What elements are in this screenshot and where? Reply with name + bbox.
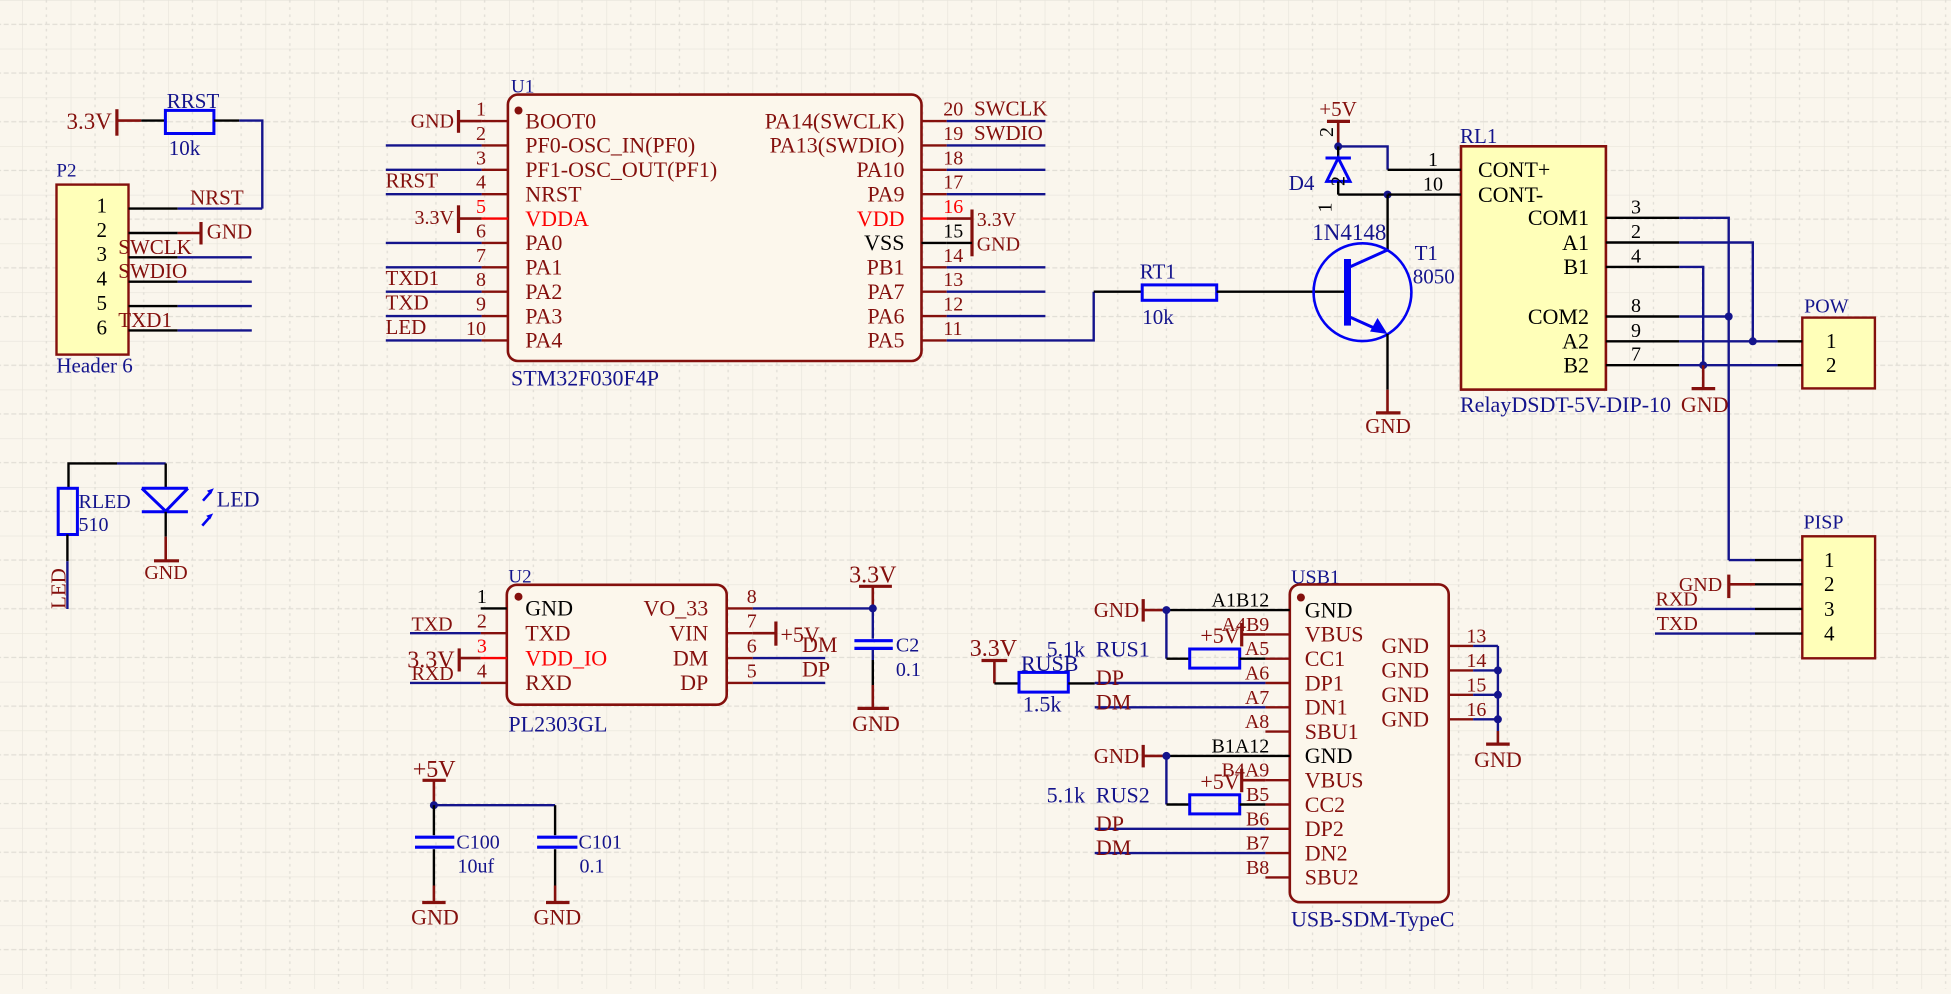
svg-text:5: 5 [476,196,486,218]
svg-text:16: 16 [943,196,963,218]
svg-text:1: 1 [1315,203,1337,213]
wire P2 pin4 SWDIO [178,281,252,283]
wire DP block 1 [1095,682,1266,684]
P2 pin 3 [129,256,178,258]
wire DP at U2 pin5 [753,682,825,684]
USB1 pin A7 DN1 [1265,706,1289,708]
svg-text:A8: A8 [1245,711,1269,733]
U2 pin 8 VO_33 [727,607,753,609]
POW pin 1 [1778,340,1803,342]
U2 pin 4 RXD [481,682,507,684]
diode D4 1N4148 [1337,146,1339,158]
wire RUS1 to CC pin [1240,658,1266,660]
U1 pin 11 [922,339,947,341]
PISP pin 3 [1755,608,1802,610]
wire U1 pin11 PA5 to RT1 [947,292,1094,341]
PISP pin 4 [1755,632,1802,634]
svg-text:USB-SDM-TypeC: USB-SDM-TypeC [1291,907,1454,932]
wire at U1 pin 12 [947,315,1046,317]
svg-text:DN1: DN1 [1305,695,1348,720]
U1 pin 5 [482,217,508,219]
wire at U1 pin 6 [386,242,482,244]
USB1 pin B8 SBU2 [1265,876,1289,878]
wire RXD to U2 pin4 [410,682,481,684]
LED arrow 2 [202,517,210,526]
U1 pin 8 [482,290,508,292]
U1 pin 20 [922,120,947,122]
svg-text:GND: GND [411,111,454,133]
svg-text:GND: GND [411,905,459,930]
USB1 pin 16 GND [1449,718,1473,720]
svg-text:VDDA: VDDA [525,206,589,231]
wire RLED top network [69,463,118,488]
svg-text:CONT-: CONT- [1478,182,1543,207]
PISP pin 1 [1755,559,1802,561]
power port GND below C2 [871,685,874,708]
svg-text:GND: GND [1681,392,1729,417]
svg-text:1: 1 [97,194,108,218]
junction dot GND bus [1494,691,1502,699]
svg-text:2: 2 [1824,572,1835,596]
RL1 pin 2 A1 [1606,241,1679,243]
svg-text:COM1: COM1 [1528,205,1589,230]
svg-text:TXD: TXD [525,620,570,645]
wire A2 to POW pin1 [1679,340,1777,342]
svg-text:PA0: PA0 [525,230,562,255]
svg-text:3: 3 [476,147,486,169]
svg-text:T1: T1 [1415,241,1438,265]
svg-text:RUSB: RUSB [1021,651,1078,676]
U2 pin 6 DM [727,657,753,659]
wire at U1 pin 19 [947,144,1046,146]
svg-text:8: 8 [476,269,486,291]
P2 pin 4 [129,281,178,283]
svg-text:1: 1 [1428,149,1438,171]
svg-text:7: 7 [476,245,486,267]
svg-text:DP: DP [680,670,708,695]
svg-text:GND: GND [1094,598,1140,622]
wire at U1 pin 18 [947,169,1046,171]
svg-text:VDD: VDD [857,206,905,231]
svg-text:16: 16 [1466,699,1486,721]
svg-text:DP: DP [1096,665,1124,690]
wire at U1 pin 8 [386,290,482,292]
junction dot 3.3V C2 node [869,604,877,612]
wire at U1 pin 3 [386,169,482,171]
wire TXD to PISP pin4 [1655,632,1755,634]
svg-text:10: 10 [1423,174,1443,196]
wire at U1 pin 9 [386,315,482,317]
svg-text:2: 2 [476,123,486,145]
svg-text:17: 17 [943,172,963,194]
svg-text:RUS2: RUS2 [1096,783,1150,808]
svg-text:VDD_IO: VDD_IO [525,645,607,670]
svg-text:3.3V: 3.3V [849,562,897,588]
svg-text:CC1: CC1 [1305,646,1345,671]
svg-text:GND: GND [1381,707,1429,732]
wire 3.3V node to C2 [872,608,874,638]
U1 pin 4 [482,193,508,195]
resistor RUSB [1019,672,1068,692]
svg-text:RXD: RXD [412,663,454,685]
svg-text:TXD: TXD [386,291,429,315]
U1 pin 3 [482,169,508,171]
svg-text:3: 3 [477,636,487,658]
junction dot A2 node [1749,337,1757,345]
svg-text:PA14(SWCLK): PA14(SWCLK) [765,108,905,133]
svg-text:B6: B6 [1246,808,1269,830]
transistor T1 8050 [1314,243,1412,341]
svg-text:3: 3 [1631,196,1641,218]
svg-text:SBU1: SBU1 [1305,719,1359,744]
power port GND below T1 [1386,390,1389,413]
svg-text:2: 2 [1316,127,1338,137]
junction dot +5V caps node [430,801,438,809]
svg-text:NRST: NRST [525,181,582,206]
wire C100 to GND [433,849,435,885]
wire USB right GND bus vertical [1497,646,1499,731]
svg-text:DP: DP [1096,811,1124,836]
U2 pin 5 DP [727,682,753,684]
svg-text:SWCLK: SWCLK [118,235,192,259]
junction dot COM2 node [1725,313,1733,321]
USB1 pin A4B9 VBUS [1265,633,1289,635]
svg-text:2: 2 [1328,176,1350,186]
U2 pin 3 VDD_IO [481,657,507,659]
LED arrow 1 [203,492,211,501]
svg-text:A2: A2 [1562,329,1589,354]
RL1 pin 8 COM2 [1606,315,1679,317]
svg-text:4: 4 [97,267,108,291]
wire +5V node to C101 [434,804,555,806]
svg-text:10k: 10k [169,136,201,160]
USB1 pin B5 CC2 [1265,803,1289,805]
svg-text:PA7: PA7 [867,279,904,304]
wire DP block 2 [1095,828,1266,830]
wire B1 down to B2 node [1679,267,1703,365]
svg-text:2: 2 [1631,221,1641,243]
svg-text:STM32F030F4P: STM32F030F4P [511,366,659,391]
svg-text:SWDIO: SWDIO [118,259,187,283]
svg-text:10uf: 10uf [458,856,495,878]
svg-text:DP2: DP2 [1305,816,1344,841]
wire at U1 pin 17 [947,193,1046,195]
svg-text:A5: A5 [1245,638,1269,660]
svg-text:POW: POW [1804,295,1849,317]
svg-text:PF1-OSC_OUT(PF1): PF1-OSC_OUT(PF1) [525,157,717,182]
svg-text:15: 15 [1466,674,1486,696]
svg-text:1.5k: 1.5k [1023,692,1062,717]
svg-text:8: 8 [747,586,757,608]
POW pin 2 [1778,364,1803,366]
svg-text:1: 1 [476,99,486,121]
wire TXD to U2 pin2 [410,632,481,634]
svg-text:LED: LED [386,315,427,339]
wire at U1 pin 7 [386,266,482,268]
svg-text:B8: B8 [1246,857,1269,879]
wire RLED bottom [66,535,68,562]
wire at U1 pin 2 [386,144,482,146]
wire C2 to GND [872,650,874,660]
svg-text:PF0-OSC_IN(PF0): PF0-OSC_IN(PF0) [525,133,695,158]
svg-text:510: 510 [79,514,109,536]
svg-text:RLED: RLED [79,491,131,513]
USB1 pin A8 SBU1 [1265,730,1289,732]
U1 pin 12 [922,315,947,317]
resistor RT1 [1142,285,1217,300]
wire 3.3V to RUSB [994,682,1019,684]
PISP pin 2 [1755,583,1802,585]
P2 pin 1 [129,207,178,209]
svg-text:PA10: PA10 [856,157,904,182]
svg-text:3.3V: 3.3V [977,209,1017,231]
svg-text:19: 19 [943,123,963,145]
RL1 pin 9 A2 [1606,340,1679,342]
wire P2 pin5 [178,305,252,307]
svg-text:GND: GND [1381,633,1429,658]
svg-text:Header 6: Header 6 [56,353,132,377]
USB1 pin A5 CC1 [1265,658,1289,660]
svg-text:PA9: PA9 [867,181,904,206]
svg-text:CONT+: CONT+ [1478,157,1550,182]
svg-text:DM: DM [1096,689,1131,714]
wire GND to USB1 block 1 [1166,609,1289,611]
P2 pin 5 [129,305,178,307]
svg-text:6: 6 [476,220,486,242]
wire GND down to RUS1 [1165,610,1167,659]
wire P2 pin3 SWCLK [178,256,252,258]
wire P2 pin1 to NRST net [178,207,263,209]
svg-text:14: 14 [943,245,963,267]
svg-text:11: 11 [943,318,962,340]
svg-text:VO_33: VO_33 [644,596,709,621]
svg-text:RXD: RXD [1656,588,1698,610]
svg-text:LED: LED [47,568,71,609]
wire RT1 to T1 base [1217,291,1347,293]
svg-text:GND: GND [1381,682,1429,707]
RL1 pin 4 B1 [1606,266,1679,268]
svg-text:SWCLK: SWCLK [974,97,1048,121]
node NRST vertical wire to RRST [261,121,263,209]
wire 3.3V to RRST [141,119,165,121]
wire GND at U1 pin15 [947,242,972,244]
svg-text:GND: GND [1094,744,1140,768]
svg-text:DP1: DP1 [1305,670,1344,695]
svg-text:PA2: PA2 [525,279,562,304]
svg-text:PL2303GL: PL2303GL [508,711,607,736]
svg-text:LED: LED [217,487,260,512]
svg-text:3: 3 [1824,597,1835,621]
svg-text:TXD: TXD [1657,613,1698,635]
svg-text:PA4: PA4 [525,328,562,353]
svg-text:13: 13 [1466,625,1486,647]
svg-text:TXD1: TXD1 [118,308,172,332]
svg-text:A1: A1 [1562,230,1589,255]
wire RXD to PISP pin3 [1655,608,1755,610]
RL1 pin 3 COM1 [1606,217,1679,219]
svg-text:COM2: COM2 [1528,304,1589,329]
junction dot GND block 1 [1162,606,1170,614]
svg-text:8: 8 [1631,295,1641,317]
svg-text:1: 1 [1826,329,1837,353]
svg-text:RRST: RRST [386,169,439,193]
U1 pin 17 [922,193,947,195]
svg-text:A1B12: A1B12 [1212,590,1270,612]
svg-text:C2: C2 [896,635,919,657]
svg-text:15: 15 [943,220,963,242]
U1 pin 6 [482,242,508,244]
svg-text:DM: DM [802,632,837,657]
RL1 pin 7 B2 [1606,364,1679,366]
wire USB1 pin 16 [1473,718,1498,720]
svg-text:A6: A6 [1245,663,1269,685]
P2 pin 6 [129,329,178,331]
svg-text:+5V: +5V [1200,623,1239,648]
svg-text:D4: D4 [1289,171,1315,195]
wire U2 pin8 to 3.3V node [753,607,873,609]
wire DM block 2 [1095,852,1266,854]
wire B2 to POW pin2 [1679,364,1777,366]
svg-text:GND: GND [977,234,1020,256]
usb connector USB1 body [1290,584,1449,902]
ic U2 body [507,585,727,705]
svg-text:GND: GND [1381,658,1429,683]
svg-text:DP: DP [802,657,830,682]
U2 pin 7 VIN [727,632,753,634]
svg-text:2: 2 [97,218,108,242]
wire USB1 pin 15 [1473,694,1498,696]
power port GND below C101 [554,886,557,903]
wire RRST to NRST corner [214,119,239,121]
svg-text:4: 4 [476,172,486,194]
wire COM vertical to PISP pin1 [1729,559,1755,561]
wire COM1 to PISP vertical [1679,218,1728,560]
wire COM2 to vertical [1679,315,1728,317]
svg-text:DN2: DN2 [1305,840,1348,865]
RL1 pin 1 CONT+ [1388,169,1461,171]
power port GND below USB right bus [1497,731,1500,744]
wire at U1 pin 20 [947,120,1046,122]
svg-text:RL1: RL1 [1460,124,1497,148]
wire at U1 pin 4 [386,193,482,195]
wire at U1 pin 13 [947,290,1046,292]
svg-text:12: 12 [943,294,963,316]
svg-text:7: 7 [747,611,757,633]
U1 pin 9 [482,315,508,317]
svg-text:GND: GND [1365,414,1411,438]
wire GND to USB1 block 2 [1166,755,1289,757]
USB1 pin B6 DP2 [1265,828,1289,830]
svg-text:6: 6 [97,315,108,339]
USB1 pin A6 DP1 [1265,682,1289,684]
svg-text:4: 4 [477,660,487,682]
relay RL1 body [1461,146,1606,389]
wire at U1 pin 10 [386,339,482,341]
svg-text:10k: 10k [1142,305,1174,329]
svg-text:B2: B2 [1563,352,1589,377]
svg-text:VSS: VSS [864,230,904,255]
wire T1 emitter to GND [1386,334,1388,390]
resistor RLED [58,488,77,534]
capacitor C101 [537,836,577,839]
svg-text:6: 6 [747,636,757,658]
wire GND down to RUS2 [1165,756,1167,805]
wire +5V node to C100 [433,805,435,835]
svg-text:GND: GND [1474,747,1522,772]
power port GND at P2 pin2 [178,232,201,235]
svg-text:BOOT0: BOOT0 [525,108,596,133]
svg-text:PA13(SWDIO): PA13(SWDIO) [770,133,905,158]
svg-text:4: 4 [1631,245,1641,267]
svg-text:RUS1: RUS1 [1096,637,1150,662]
svg-text:PISP: PISP [1804,512,1844,534]
svg-text:B1A12: B1A12 [1212,735,1270,757]
svg-text:SBU2: SBU2 [1305,865,1359,890]
USB1 pin B4A9 VBUS [1265,779,1289,781]
U1 pin 7 [482,266,508,268]
U1 pin 18 [922,169,947,171]
svg-text:4: 4 [1824,622,1835,646]
U1 pin 13 [922,290,947,292]
svg-text:VBUS: VBUS [1305,767,1364,792]
svg-text:0.1: 0.1 [580,856,605,878]
wire RUSB to DP net [1068,682,1094,684]
svg-text:SWDIO: SWDIO [974,121,1043,145]
svg-text:7: 7 [1631,344,1641,366]
mcu U1 body [508,95,922,361]
wire at U1 pin 14 [947,266,1046,268]
svg-text:A7: A7 [1245,687,1269,709]
svg-text:GND: GND [525,596,573,621]
svg-text:1N4148: 1N4148 [1312,220,1386,245]
svg-text:GND: GND [207,219,253,243]
svg-text:DM: DM [1096,835,1131,860]
USB1 pin B7 DN2 [1265,852,1289,854]
U1 pin 2 [482,144,508,146]
svg-text:RT1: RT1 [1140,260,1176,284]
svg-text:GND: GND [533,905,581,930]
U2 pin 2 TXD [481,632,507,634]
connector POW body [1802,318,1875,389]
svg-text:GND: GND [144,562,187,584]
U1 pin 16 [922,217,947,219]
svg-text:PA3: PA3 [525,303,562,328]
P2 pin 2 [129,232,178,234]
svg-text:PA1: PA1 [525,255,562,280]
svg-text:C101: C101 [579,831,622,853]
svg-text:10: 10 [466,318,486,340]
wire A1 down to A2 node [1679,243,1753,342]
svg-text:NRST: NRST [190,186,244,210]
resistor RUS1 [1190,649,1240,668]
power port GND below B2 node [1702,365,1705,388]
capacitor C100 [415,836,454,839]
U1 pin 14 [922,266,947,268]
LED diode D symbol [142,487,188,490]
svg-text:0.1: 0.1 [896,659,921,681]
svg-text:RXD: RXD [525,670,571,695]
svg-text:2: 2 [1826,353,1837,377]
svg-text:+5V: +5V [1319,97,1357,121]
wire USB1 pin 14 [1473,669,1498,671]
svg-text:B1: B1 [1563,254,1589,279]
wire D4 anode to RL1 pin10 node [1338,193,1387,195]
svg-text:B5: B5 [1246,784,1269,806]
wire P2 pin6 TXD1 [178,329,252,331]
USB1 pin 15 GND [1449,694,1473,696]
svg-text:TXD: TXD [412,614,453,636]
svg-text:PA6: PA6 [867,303,904,328]
